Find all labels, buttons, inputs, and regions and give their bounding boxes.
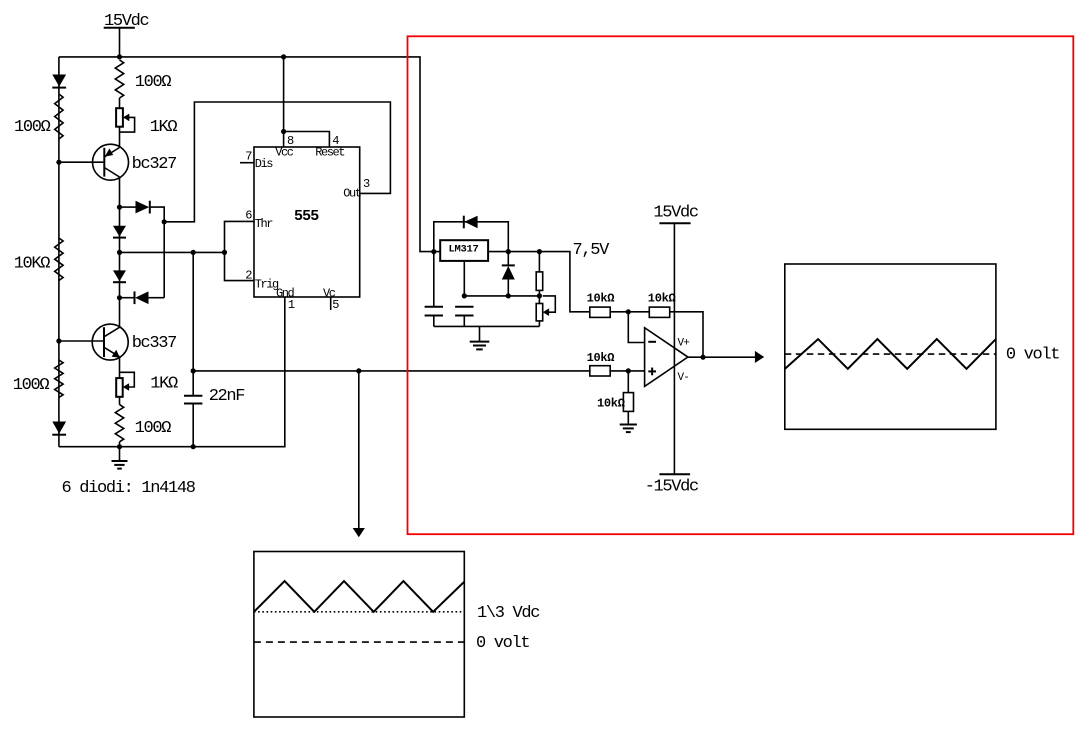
pin 6 Thr wire: [225, 221, 255, 280]
wire top bus: [59, 57, 440, 252]
svg-text:bc337: bc337: [132, 334, 176, 353]
wire resistor to rail: [119, 442, 121, 447]
node cap branch: [191, 250, 196, 255]
wire adj rail: [464, 295, 539, 297]
diode D5 left: [120, 291, 165, 304]
svg-text:22nF: 22nF: [209, 387, 245, 406]
wire left rail: [58, 57, 60, 447]
svg-text:0 volt: 0 volt: [476, 634, 529, 653]
resistor 10K ohm: [55, 238, 63, 281]
op-amp U3: [645, 328, 688, 387]
node middle column: [117, 250, 122, 255]
resistor R1 10k: [590, 307, 650, 317]
node thr-trig vertical: [222, 250, 227, 255]
svg-text:1KΩ: 1KΩ: [150, 375, 178, 394]
wire pot to resistor: [119, 397, 121, 405]
svg-text:100Ω: 100Ω: [14, 118, 51, 137]
scope screen right: [785, 264, 996, 429]
pin 7 Dis stub: [240, 162, 254, 164]
third line dotted bottom: [254, 611, 464, 613]
node scope branch: [356, 368, 361, 373]
wire inverting input: [628, 312, 644, 343]
diode D2 down: [113, 226, 126, 238]
waveform triangle bottom: [254, 581, 464, 612]
svg-text:10KΩ: 10KΩ: [14, 255, 51, 274]
node Vcc-Reset junction: [281, 129, 286, 134]
node bus-column: [117, 54, 122, 59]
regulator U2 LM317 body: [440, 240, 488, 261]
node noninverting: [626, 368, 631, 373]
transistor Q1 bc327: [59, 144, 129, 207]
svg-text:-15Vdc: -15Vdc: [645, 477, 698, 496]
red highlight box: [408, 36, 1074, 534]
pin LM317 adj: [463, 261, 465, 296]
node D8 bottom: [506, 293, 511, 298]
waveform triangle right: [785, 339, 996, 369]
power +15Vdc supply symbol: [104, 12, 149, 31]
node bus-Vcc: [281, 54, 286, 59]
pin 5 Vc stub: [330, 297, 332, 310]
svg-text:15Vdc: 15Vdc: [653, 204, 697, 223]
svg-text:555: 555: [294, 208, 319, 225]
wire LM317 bypass: [434, 222, 509, 252]
wire cap vertical: [192, 252, 194, 395]
capacitor C3: [455, 307, 473, 327]
diode D6: [52, 422, 66, 435]
resistor 100 ohm mid bottom: [115, 405, 123, 442]
potentiometer P2 1K ohm: [116, 372, 134, 397]
diode D3 down: [113, 270, 126, 282]
svg-text:Dis: Dis: [255, 157, 274, 171]
wire output arrow: [688, 351, 764, 363]
resistor R4 10k to ground: [623, 371, 633, 424]
svg-text:1KΩ: 1KΩ: [150, 118, 178, 137]
node bottom diode: [117, 295, 122, 300]
wire supply to bus: [119, 28, 121, 57]
wire resistor to pot P1: [119, 98, 121, 108]
transistor Q2 bc337: [59, 298, 128, 378]
resistor 100 ohm left bottom: [55, 360, 63, 398]
wire LM317 bottom rail: [434, 325, 540, 327]
resistor R2 10k feedback: [649, 307, 703, 357]
svg-text:100Ω: 100Ω: [13, 376, 50, 395]
svg-text:bc327: bc327: [132, 155, 176, 174]
svg-text:10kΩ: 10kΩ: [587, 292, 615, 306]
pin 8 Vcc stub: [283, 57, 285, 147]
svg-text:10kΩ: 10kΩ: [597, 397, 625, 411]
wire pot P1 to bc327 emitter: [119, 127, 121, 148]
svg-text:LM317: LM317: [449, 244, 479, 256]
potentiometer P1 1K ohm: [116, 108, 135, 132]
diode D8 up: [502, 252, 515, 296]
wire Vcc to Reset: [284, 132, 330, 148]
svg-text:Vcc: Vcc: [275, 146, 294, 160]
resistor R3 10k: [590, 366, 645, 376]
node collector bc327: [117, 205, 122, 210]
node opamp output: [700, 355, 705, 360]
svg-text:Out: Out: [343, 187, 361, 201]
node inverting: [626, 309, 631, 314]
svg-text:V+: V+: [678, 338, 690, 350]
node bottom rail cap: [191, 444, 196, 449]
node diode bypass: [162, 219, 167, 224]
power +15Vdc opamp: [653, 204, 697, 224]
ground main: [112, 447, 128, 469]
ground LM317: [470, 326, 490, 349]
power -15Vdc opamp: [645, 474, 698, 496]
node output branch: [191, 368, 196, 373]
node LM317 input: [431, 249, 436, 254]
svg-text:Thr: Thr: [255, 217, 274, 231]
resistor R5: [536, 252, 543, 296]
potentiometer P3: [536, 296, 555, 327]
node pot P3 top: [537, 293, 542, 298]
wire threshold-trigger node: [120, 251, 225, 253]
resistor 100 ohm left top: [55, 94, 63, 139]
wire output branch to opamp: [193, 370, 590, 372]
svg-text:7,5V: 7,5V: [573, 241, 611, 260]
diode D1: [52, 75, 66, 88]
diode D7 bypass: [464, 216, 478, 229]
IC U1 555 body: [254, 147, 360, 297]
svg-text:6 diodi: 1n4148: 6 diodi: 1n4148: [62, 479, 196, 498]
wire diode column: [119, 207, 121, 298]
diode D4 right: [120, 201, 165, 298]
pin 3 Out wire: [164, 102, 390, 222]
svg-text:10kΩ: 10kΩ: [648, 292, 676, 306]
svg-text:1\3 Vdc: 1\3 Vdc: [477, 604, 539, 623]
resistor 100 ohm mid top: [115, 60, 123, 98]
node rail-base bc327: [56, 160, 61, 165]
node bottom rail ground: [117, 444, 122, 449]
node diode D8 top: [506, 249, 511, 254]
capacitor C1 22nF: [184, 396, 202, 447]
svg-text:100Ω: 100Ω: [135, 419, 172, 438]
svg-text:V-: V-: [678, 372, 689, 384]
svg-text:Reset: Reset: [315, 146, 344, 160]
wire LM317 output: [488, 252, 590, 312]
svg-text:100Ω: 100Ω: [135, 73, 172, 92]
svg-text:10kΩ: 10kΩ: [587, 351, 615, 365]
scope screen bottom: [254, 552, 464, 718]
node R5 top: [537, 249, 542, 254]
capacitor C2: [425, 252, 443, 327]
node rail-base bc337: [56, 338, 61, 343]
node adj: [462, 293, 467, 298]
zero line dashed bottom: [254, 641, 464, 643]
wire arrow to bottom scope: [353, 371, 365, 537]
ground R4: [620, 425, 637, 433]
svg-text:0 volt: 0 volt: [1006, 346, 1059, 365]
wire bottom rail: [59, 297, 285, 447]
zero line dashed right: [785, 353, 996, 355]
wire opamp supply vertical: [673, 223, 675, 474]
